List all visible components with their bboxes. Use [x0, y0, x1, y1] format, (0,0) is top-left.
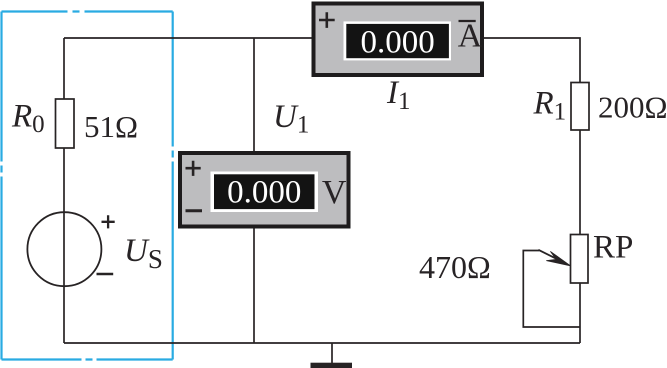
wire: voltmeter bottom branch [253, 229, 255, 344]
dashed boundary box bottom edge [2, 358, 173, 360]
svg-text:470Ω: 470Ω [419, 249, 491, 285]
potentiometer RP body [571, 235, 589, 284]
wire: top left segment from node at x=64 to ammeter [64, 37, 312, 39]
wire: RP bottom to bottom rail [579, 283, 581, 343]
dashed boundary box left edge [0, 12, 2, 360]
voltmeter display white frame [211, 172, 319, 213]
wire: left branch from top rail down to R0 [63, 38, 65, 99]
svg-text:51Ω: 51Ω [84, 109, 138, 144]
source plus sign [102, 215, 115, 228]
wire: R1 bottom to RP top [579, 130, 581, 235]
voltage source circle US [27, 212, 101, 286]
svg-text:0.000: 0.000 [227, 175, 301, 211]
svg-text:200Ω: 200Ω [598, 90, 667, 125]
source minus sign [97, 273, 114, 276]
resistor R1 body [571, 83, 589, 131]
ammeter body [314, 4, 483, 76]
wire: voltmeter top branch [253, 38, 255, 151]
resistor R0 body [56, 99, 75, 148]
wire: R0 bottom through source circle to bottom rail [63, 148, 65, 343]
ground [331, 343, 333, 363]
voltmeter display black window [214, 174, 315, 209]
ammeter plus terminal mark [319, 12, 335, 28]
voltmeter minus terminal mark [186, 209, 203, 212]
svg-text:RP: RP [593, 229, 633, 265]
wire: bottom rail [64, 342, 580, 344]
svg-text:0.000: 0.000 [360, 24, 434, 60]
voltmeter plus terminal mark [186, 161, 201, 176]
ammeter display black window [346, 24, 449, 58]
wire: RP wiper return (down, left, up was drawn from arrow) [523, 251, 580, 328]
voltmeter body [180, 153, 349, 227]
ammeter display white frame [344, 21, 452, 60]
svg-text:A: A [458, 18, 483, 55]
dashed boundary box (source equivalent) top edge [2, 10, 173, 12]
wiper arrow into RP body [538, 250, 556, 259]
dashed boundary box right edge [172, 12, 174, 360]
wire: ammeter right to top-right corner, down to R1 [484, 38, 580, 83]
svg-text:V: V [322, 174, 347, 211]
